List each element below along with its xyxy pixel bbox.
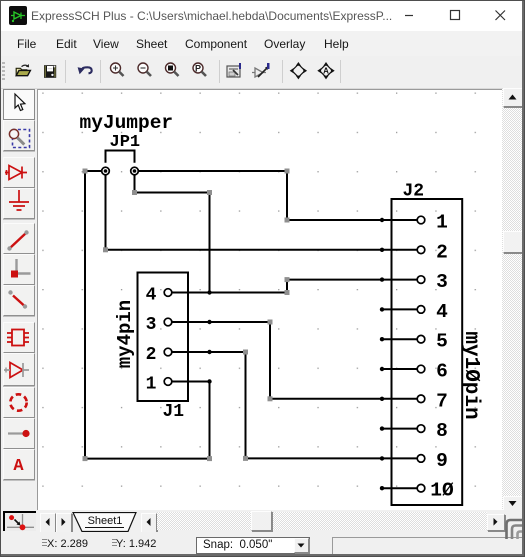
- props icon: [227, 63, 241, 77]
- wire: [7, 230, 28, 250]
- junction at JP1 pin 1: [104, 169, 108, 173]
- zoom area: [9, 129, 29, 147]
- status sunken panel: [332, 537, 523, 555]
- ground place: [9, 190, 29, 210]
- svg-text:1Ø: 1Ø: [430, 480, 454, 502]
- J2 pin 6: [382, 365, 425, 373]
- connector J1 body: [138, 273, 189, 402]
- svg-text:my4pin: my4pin: [114, 300, 136, 368]
- svg-text:J1: J1: [163, 402, 185, 422]
- wire JP1-1 to left node: [85, 170, 102, 172]
- J2 pin tip dots: [380, 218, 384, 491]
- svg-text:8: 8: [436, 420, 448, 442]
- J1 pin 1: [164, 378, 209, 386]
- zoom dot: [166, 63, 179, 76]
- toolbar: [1, 56, 524, 89]
- connector J2 body: [392, 199, 463, 505]
- wire down at x270: [269, 322, 271, 399]
- svg-text:my1Øpin: my1Øpin: [459, 331, 482, 419]
- junction J1 pin 1 tip: [207, 379, 211, 383]
- J2 pin 9: [382, 455, 425, 463]
- J2 pin 3: [382, 276, 425, 284]
- wire down to J1 pin 4: [209, 193, 211, 293]
- disconnect: [8, 290, 27, 308]
- title bar: [1, 1, 524, 31]
- wire left vertical down: [84, 171, 86, 459]
- J1 pin 3: [164, 318, 209, 326]
- IC: [7, 330, 29, 346]
- J2 pin 1: [382, 216, 425, 224]
- wire to J2 pin 9: [246, 457, 383, 459]
- canvas: [37, 89, 502, 510]
- svg-text:1: 1: [436, 212, 448, 234]
- svg-text:6: 6: [436, 361, 448, 383]
- svg-text:4: 4: [146, 286, 157, 306]
- svg-text:myJumper: myJumper: [80, 112, 174, 134]
- diode place: [5, 166, 27, 180]
- svg-text:3: 3: [146, 315, 157, 335]
- wire horizontal y192: [135, 192, 210, 194]
- J2 pin 8: [382, 425, 425, 433]
- wire to J2 pin 7: [270, 398, 382, 400]
- zoom P: [193, 63, 206, 76]
- svg-text:9: 9: [436, 450, 448, 472]
- undo: [83, 67, 92, 73]
- svg-text:P: P: [195, 63, 201, 73]
- J2 pin 5: [382, 335, 425, 343]
- zoom minus: [138, 63, 151, 76]
- snap indicator button: [3, 511, 36, 531]
- svg-text:J2: J2: [403, 182, 425, 202]
- J2 pin 10: [382, 484, 425, 492]
- J2 pin 7: [382, 395, 425, 403]
- toolbar icons placeholder: single svg spanning toolbar: [0, 56, 360, 89]
- diode gray: [4, 363, 29, 378]
- arrow cursor: [15, 94, 25, 111]
- vertical scrollbar: [502, 88, 522, 512]
- bottom row: [1, 510, 524, 532]
- wire down at x287: [286, 171, 288, 220]
- wire to J2 pin 3: [287, 279, 382, 281]
- svg-text:A: A: [323, 67, 329, 76]
- wire up to J1 pin 1: [209, 382, 211, 459]
- wire J1 pin 4 right: [210, 292, 288, 294]
- svg-text:3: 3: [436, 271, 448, 293]
- left toolbar: [0, 89, 37, 510]
- svg-text:5: 5: [436, 331, 448, 353]
- caption buttons: [388, 1, 524, 30]
- wire to J2 pin 1: [287, 219, 382, 221]
- J1 pin 2: [164, 348, 209, 356]
- h scrollbar: [157, 512, 487, 530]
- corner: [11, 259, 31, 278]
- junction at JP1 pin 2: [133, 169, 137, 173]
- corner size grip: [502, 513, 525, 540]
- svg-text:2: 2: [436, 241, 448, 263]
- circle tool: [10, 394, 26, 410]
- junction J1 pin 2 tip: [207, 350, 211, 354]
- wire JP1-2 down: [134, 175, 136, 193]
- junction J1 pin 4 tip: [207, 290, 211, 294]
- svg-text:4: 4: [436, 301, 448, 323]
- wire jog up: [286, 280, 288, 293]
- wire J1 pin 2 right: [210, 351, 246, 353]
- wire JP1-2 right: [138, 170, 287, 172]
- wire J1 pin 3 right: [210, 321, 271, 323]
- save floppy: [44, 65, 56, 78]
- svg-text:A: A: [13, 457, 24, 476]
- wire down at x245: [245, 352, 247, 458]
- zoom plus: [111, 63, 124, 76]
- left tool buttons: [3, 89, 35, 120]
- J2 pin 4: [382, 306, 425, 314]
- pan cross: [290, 62, 307, 79]
- jumper JP1 body: [102, 151, 139, 175]
- svg-text:JP1: JP1: [110, 133, 141, 152]
- tab scroll buttons: [40, 513, 56, 533]
- wire vertex squares: [83, 169, 290, 462]
- app icon: [9, 6, 27, 25]
- pan cross circle: [317, 62, 334, 79]
- junction J1 pin 3 tip: [207, 320, 211, 324]
- svg-text:7: 7: [436, 390, 448, 412]
- edit comp icon: [252, 63, 270, 77]
- snap combo: [196, 537, 310, 554]
- J2 pin 2: [382, 246, 425, 254]
- toolbar separators: [65, 60, 66, 83]
- status bar: [1, 532, 524, 555]
- wire bottom left horizontal: [85, 458, 210, 460]
- open folder: [16, 64, 30, 76]
- wire JP1-1 down: [105, 175, 107, 250]
- menu bar: [1, 31, 524, 56]
- sheet tab: [72, 512, 140, 532]
- J1 pin 4: [164, 289, 209, 297]
- wire to J2 pin 2: [106, 249, 383, 251]
- svg-text:2: 2: [146, 345, 157, 365]
- svg-text:Sheet1: Sheet1: [88, 515, 123, 527]
- svg-text:1: 1: [146, 375, 157, 395]
- port: [8, 430, 30, 437]
